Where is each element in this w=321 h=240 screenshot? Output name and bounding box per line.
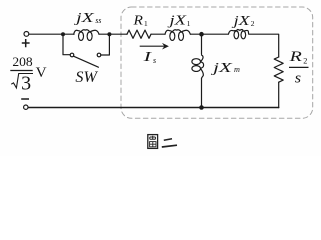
inductor jX2 bbox=[228, 29, 248, 38]
resistor R1 bbox=[127, 30, 151, 38]
svg-text:R: R bbox=[132, 12, 143, 27]
svg-text:208: 208 bbox=[12, 54, 32, 69]
dashed box (motor equivalent-circuit boundary) bbox=[121, 7, 313, 118]
svg-text:2: 2 bbox=[303, 57, 307, 66]
switch SW right contact bbox=[97, 53, 101, 57]
svg-text:V: V bbox=[36, 64, 47, 81]
svg-text:s: s bbox=[153, 56, 156, 65]
current arrow Is shaft bbox=[140, 45, 166, 47]
svg-text:2: 2 bbox=[251, 19, 255, 28]
minus sign bbox=[21, 98, 29, 100]
svg-text:ss: ss bbox=[95, 16, 101, 25]
bottom wire bbox=[28, 107, 279, 109]
svg-text:jX: jX bbox=[231, 13, 251, 28]
svg-text:1: 1 bbox=[187, 19, 191, 28]
wire node B to resistor R1 bbox=[109, 33, 127, 35]
caption glyph TU (figure) bbox=[148, 135, 158, 149]
wire jX1 to node C bbox=[191, 33, 202, 35]
plus sign bbox=[22, 39, 30, 47]
wire node A to coil jXss bbox=[63, 33, 74, 35]
svg-text:s: s bbox=[295, 70, 302, 86]
terminal + circle bbox=[24, 32, 29, 37]
svg-text:jX: jX bbox=[167, 13, 188, 28]
node C junction dot bbox=[199, 32, 204, 37]
wire coil jXss to node B bbox=[99, 33, 109, 35]
wire R2/s to bottom-right corner bbox=[278, 82, 280, 108]
caption glyph ER (two) bbox=[162, 139, 177, 147]
resistor R2/s bbox=[274, 57, 283, 82]
wire jXm to bottom node bbox=[201, 79, 203, 108]
inductor jX1 bbox=[165, 30, 190, 41]
svg-text:SW: SW bbox=[75, 69, 98, 86]
wire jX2 to top-right corner down to R2/s bbox=[249, 34, 279, 57]
svg-text:R: R bbox=[288, 48, 302, 65]
radical sign of sqrt3 bbox=[11, 74, 33, 88]
wire R1 to jX1 bbox=[151, 33, 165, 35]
switch SW blade bbox=[74, 56, 99, 67]
inductor jXss bbox=[74, 30, 99, 41]
svg-text:jX: jX bbox=[210, 60, 233, 75]
svg-text:jX: jX bbox=[73, 10, 95, 25]
arrowhead of Is bbox=[162, 43, 169, 50]
wire node C to jX2 bbox=[202, 33, 229, 35]
svg-text:I: I bbox=[142, 49, 153, 64]
node A junction dot bbox=[61, 32, 65, 36]
node C to jXm vertical lead bbox=[201, 34, 203, 54]
switch SW left lead bbox=[63, 34, 70, 55]
switch SW right lead bbox=[101, 34, 110, 55]
fraction bar of R2/s bbox=[289, 66, 309, 68]
svg-text:3: 3 bbox=[21, 73, 31, 95]
node B junction dot bbox=[107, 32, 111, 36]
fraction bar of 208/sqrt3 bbox=[10, 70, 32, 72]
terminal - circle bbox=[24, 105, 28, 109]
svg-text:m: m bbox=[234, 65, 240, 74]
inductor jXm bbox=[192, 55, 204, 79]
wire + terminal to node A bbox=[29, 33, 63, 35]
bottom node junction dot bbox=[199, 105, 204, 110]
switch SW left contact bbox=[70, 53, 74, 57]
svg-text:1: 1 bbox=[144, 19, 148, 28]
